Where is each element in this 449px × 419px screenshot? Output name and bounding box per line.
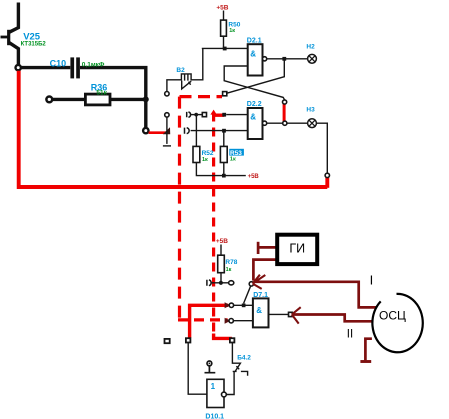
svg-text:H2: H2 xyxy=(306,43,315,50)
svg-text:ГИ: ГИ xyxy=(289,241,305,255)
svg-text:1к: 1к xyxy=(230,156,236,162)
svg-text:I: I xyxy=(370,273,374,288)
svg-text:B2: B2 xyxy=(176,67,185,74)
svg-text:&: & xyxy=(256,306,262,315)
svg-text:C10: C10 xyxy=(50,59,67,69)
svg-text:D2.1: D2.1 xyxy=(247,38,262,45)
svg-text:H3: H3 xyxy=(306,106,315,113)
svg-text:+5В: +5В xyxy=(248,174,260,180)
svg-text:R78: R78 xyxy=(225,259,237,266)
svg-text:+5В: +5В xyxy=(216,238,228,245)
svg-text:1: 1 xyxy=(211,382,216,391)
svg-text:ОСЦ: ОСЦ xyxy=(379,309,406,323)
svg-text:1к: 1к xyxy=(202,157,208,163)
svg-text:1к: 1к xyxy=(226,267,232,273)
svg-text:D7.1: D7.1 xyxy=(253,292,268,299)
svg-text:D10.1: D10.1 xyxy=(205,413,224,419)
svg-text:1к: 1к xyxy=(229,28,235,34)
svg-text:0,1мкФ: 0,1мкФ xyxy=(82,62,105,69)
svg-text:КТ315Б2: КТ315Б2 xyxy=(21,42,47,48)
svg-text:II: II xyxy=(347,329,353,341)
svg-text:Б4.2: Б4.2 xyxy=(237,355,251,362)
svg-text:+5В: +5В xyxy=(216,4,228,11)
svg-text:D2.2: D2.2 xyxy=(247,101,262,108)
svg-text:&: & xyxy=(250,113,256,122)
svg-text:&: & xyxy=(250,50,256,59)
svg-text:51к: 51к xyxy=(96,89,107,96)
